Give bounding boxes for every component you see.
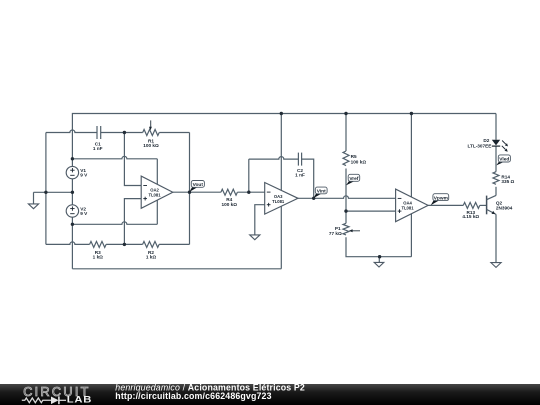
wire OA2 output to R4 (173, 191, 221, 193)
wire ground stub left (33, 192, 35, 204)
wire OA3 power vertical (280, 114, 282, 269)
wire R3 to R2 (106, 243, 143, 245)
resistor R4 (221, 189, 238, 195)
svg-text:D2: D2 (483, 138, 489, 143)
ground OA3 plus (250, 235, 260, 240)
svg-text:9 V: 9 V (80, 211, 88, 216)
wire left ground vertical (45, 133, 47, 245)
label R4 value (222, 197, 238, 207)
svg-text:Vled: Vled (499, 157, 509, 163)
junction sources midpoint (71, 191, 74, 194)
flag Vpwm (431, 194, 449, 206)
svg-text:1 kΩ: 1 kΩ (93, 255, 104, 260)
label R3 value (93, 250, 104, 260)
label C1 value (93, 141, 103, 151)
wire V1V2 column (71, 159, 73, 269)
svg-text:TL081: TL081 (148, 192, 161, 197)
wire R2 right (159, 243, 189, 245)
wire Q2 emitter to ground (495, 214, 497, 262)
label R1 value (143, 138, 159, 148)
label R5 value (351, 154, 367, 164)
wire bottom -9V rail (72, 268, 281, 270)
wire feedback column R1-R2 (189, 133, 191, 245)
resistor R14 (493, 172, 499, 185)
junction R5 top on rail (344, 112, 347, 115)
wire -9V to OA2 V- with hop (72, 222, 157, 225)
wire LED anode drop (495, 114, 497, 140)
junction Vout node (188, 191, 191, 194)
wire R13 to Q2 base (480, 204, 487, 206)
footer logo resistor and diode (22, 396, 66, 404)
footer bar (0, 384, 540, 405)
ground Q2 emitter (491, 263, 501, 268)
svg-text:100 kΩ: 100 kΩ (351, 160, 367, 165)
junction OA3 minus node (247, 191, 250, 194)
wire P1 bottom to OA4 V- (346, 237, 411, 256)
wire OA4 output to R13 (428, 204, 463, 206)
junction OA4 V+ on rail (410, 112, 413, 115)
svg-text:2N3904: 2N3904 (496, 206, 513, 211)
wire R1 right to feedback column (159, 132, 189, 134)
ground middle (374, 262, 384, 267)
wire LED cathode to R14 (495, 146, 497, 172)
svg-text:LAB: LAB (67, 396, 92, 405)
resistor R13 (463, 202, 480, 208)
junction C1 R1 minus node (123, 131, 126, 134)
wire ground stub middle (378, 257, 380, 263)
wire OA2 minus branch (124, 133, 141, 186)
wire OA2 plus branch (124, 199, 141, 245)
svg-text:Vref: Vref (349, 176, 358, 182)
wire Vref column (345, 169, 347, 224)
capacitor C1 (97, 126, 101, 139)
wire +9V top rail (72, 114, 496, 159)
wire R4 to OA3 minus (237, 191, 264, 193)
svg-text:R5: R5 (351, 154, 357, 159)
potentiometer P1 (343, 223, 349, 235)
P1 wiper arrow (349, 229, 360, 232)
op-amp OA3 (265, 183, 298, 215)
op-amp OA2 (141, 176, 173, 208)
svg-text:1 nF: 1 nF (295, 173, 305, 178)
source V1 (66, 166, 78, 178)
wire R3 left with hop (46, 242, 90, 244)
diode D2 LED (492, 140, 508, 152)
label D2 value (468, 138, 492, 148)
svg-text:1 nF: 1 nF (93, 146, 103, 151)
wire R5 top (345, 114, 347, 152)
wire OA3 plus to ground (255, 205, 265, 235)
wire +9V to OA2 V+ with hop (72, 156, 157, 159)
wire Vref to OA4 plus (346, 210, 396, 212)
svg-text:1 kΩ: 1 kΩ (146, 255, 157, 260)
wire OA3 feedback left vertical (248, 159, 250, 192)
junction middle ground (378, 255, 381, 258)
junction Vref to plus line (344, 209, 347, 212)
svg-text:TL081: TL081 (401, 206, 414, 211)
svg-text:100 kΩ: 100 kΩ (143, 143, 159, 148)
resistor R3 (90, 241, 107, 247)
flag Vint (314, 187, 327, 198)
flag Vref (346, 174, 360, 185)
source V2 (66, 205, 78, 217)
wire C2 right (302, 159, 314, 198)
label C2 value (295, 168, 305, 178)
junction V2 minus (71, 223, 74, 226)
ground left (28, 204, 38, 209)
wire gnd link to sources midpoint (34, 191, 73, 193)
wire C1 right to R1 (101, 132, 143, 134)
capacitor C2 (298, 153, 301, 166)
svg-text:335 Ω: 335 Ω (501, 179, 514, 184)
wire C2 left with hop (249, 157, 299, 160)
svg-text:100 kΩ: 100 kΩ (222, 202, 238, 207)
svg-text:4.15 kΩ: 4.15 kΩ (462, 214, 479, 219)
label R14 value (501, 175, 514, 185)
wire C1 left with hop (46, 130, 97, 133)
wire R14 to Q2 collector (495, 187, 497, 196)
resistor R2 (143, 241, 160, 247)
flag Vled (496, 155, 510, 166)
label Q2 value (496, 200, 513, 210)
wire OA3 output to OA4 minus with hop (298, 196, 396, 199)
R1 wiper arrow (149, 120, 152, 130)
junction R3 R2 plus node (123, 243, 126, 246)
svg-text:TL081: TL081 (272, 199, 285, 204)
svg-text:http://circuitlab.com/c662486g: http://circuitlab.com/c662486gvg723 (115, 391, 271, 401)
transistor Q2 (487, 195, 496, 214)
junction OA3 V+ on top rail (280, 112, 283, 115)
label R13 value (462, 210, 479, 219)
svg-text:Vint: Vint (317, 188, 326, 194)
junction Vint node (312, 197, 315, 200)
svg-text:Vpwm: Vpwm (434, 195, 448, 201)
flag Vout (190, 181, 205, 192)
junction V1 plus (71, 157, 74, 160)
svg-text:9 V: 9 V (80, 173, 88, 178)
op-amp OA4 (396, 189, 429, 222)
label V2 value (80, 206, 88, 216)
wire OA4 power vertical (410, 114, 412, 257)
svg-text:77 kΩ: 77 kΩ (329, 231, 342, 236)
svg-text:Vout: Vout (193, 182, 204, 188)
resistor R1 (143, 130, 160, 136)
svg-text:LTL-307EE: LTL-307EE (468, 144, 492, 149)
junction ground left vertical (44, 191, 47, 194)
label V1 value (80, 168, 88, 178)
resistor R5 (343, 151, 349, 166)
label P1 value (329, 226, 342, 236)
label R2 value (146, 250, 157, 260)
wire OA2 power vertical (156, 159, 158, 225)
